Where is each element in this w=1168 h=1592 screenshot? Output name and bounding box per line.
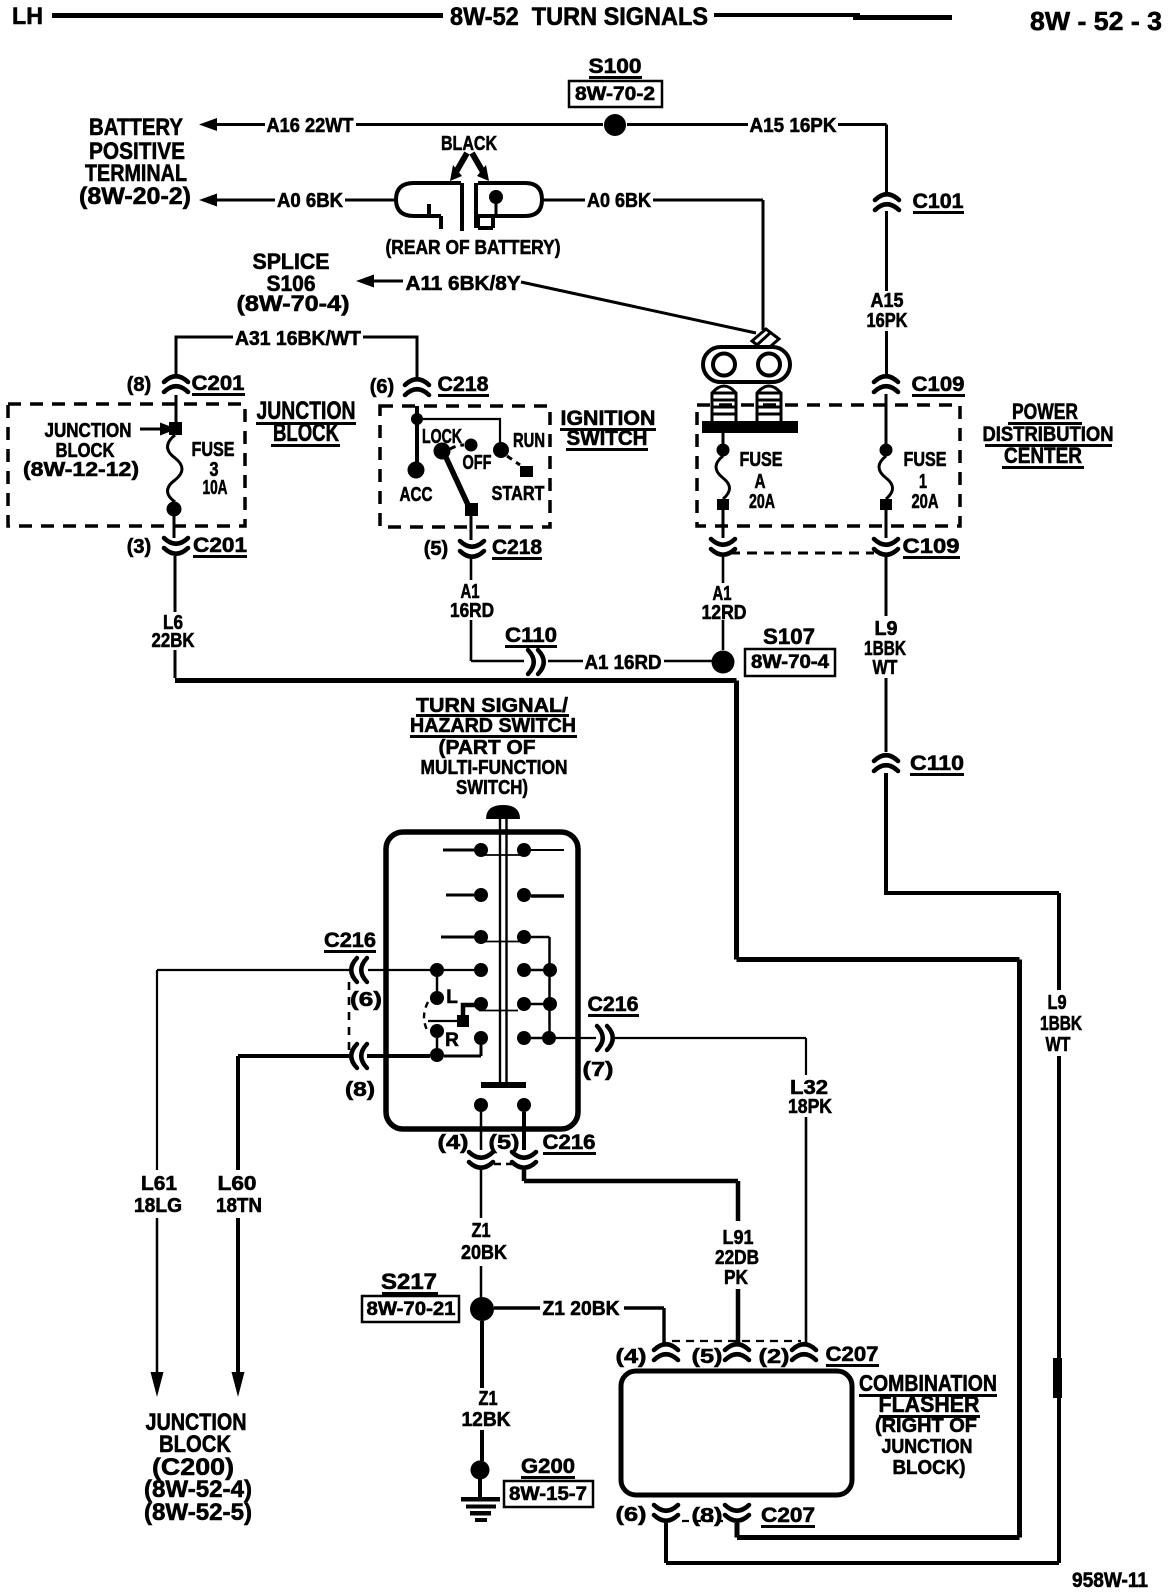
wire A15 16PK vertical <box>885 211 888 374</box>
connector C101 symbol <box>875 194 899 210</box>
svg-text:Z1: Z1 <box>479 1388 498 1410</box>
connector C216 symbol (right-pointing) <box>597 1026 613 1050</box>
wire L6 22BK upper <box>174 556 177 612</box>
START contact <box>520 466 533 477</box>
svg-text:(8): (8) <box>127 374 151 396</box>
svg-text:C218: C218 <box>438 373 489 396</box>
svg-text:S107: S107 <box>763 624 815 649</box>
svg-text:A0 6BK: A0 6BK <box>277 190 344 212</box>
svg-text:(3): (3) <box>127 536 151 558</box>
svg-text:20A: 20A <box>912 491 939 513</box>
svg-text:18TN: 18TN <box>216 1195 262 1217</box>
svg-text:C109: C109 <box>912 373 965 396</box>
battery clamp body <box>703 347 790 382</box>
L9 wire heavy segment <box>1053 1358 1062 1398</box>
switch lever stem <box>500 819 507 1082</box>
svg-text:L: L <box>446 987 458 1008</box>
svg-text:8W-70-21: 8W-70-21 <box>367 1299 456 1320</box>
turn signal switch body <box>386 832 578 1129</box>
svg-text:HAZARD SWITCH: HAZARD SWITCH <box>410 715 576 737</box>
wire L9 1BBK WT run <box>884 773 1059 990</box>
wire A1 16RD vertical <box>470 558 473 580</box>
svg-text:C201: C201 <box>192 372 245 395</box>
arrowhead to battery positive terminal (A16) <box>199 118 217 131</box>
svg-text:Z1 20BK: Z1 20BK <box>543 1298 621 1320</box>
L contact <box>430 991 444 1005</box>
svg-text:R: R <box>445 1030 459 1051</box>
fuse A leg <box>722 433 725 444</box>
wire to L contact <box>436 977 439 991</box>
svg-text:20BK: 20BK <box>461 1242 507 1264</box>
S100 reference box 8W-70-2 <box>569 81 662 107</box>
OFF contact <box>465 439 478 452</box>
svg-text:START: START <box>492 483 545 505</box>
svg-text:A15: A15 <box>871 290 904 312</box>
clamp eye right <box>758 354 780 376</box>
svg-text:C216: C216 <box>543 1131 596 1154</box>
wire A11 diagonal to battery clamp <box>521 282 756 333</box>
bottom pins <box>474 1098 488 1112</box>
power distribution center dashed box <box>697 405 960 526</box>
R contact <box>430 1024 444 1038</box>
svg-text:C207: C207 <box>761 1504 815 1527</box>
svg-text:(5): (5) <box>424 538 448 560</box>
svg-text:JUNCTION: JUNCTION <box>882 1436 973 1458</box>
svg-text:(6): (6) <box>370 376 394 398</box>
contact row 6 <box>474 1031 488 1045</box>
wire Z1 20BK to flasher ground pin <box>494 1306 540 1309</box>
svg-text:C110: C110 <box>505 624 557 647</box>
svg-text:10A: 10A <box>203 477 228 499</box>
connector C109 (top) symbol <box>874 376 898 392</box>
contact row 4 with hazard feed <box>368 969 474 971</box>
svg-text:SWITCH): SWITCH) <box>456 777 528 799</box>
splice S107 node <box>712 651 735 674</box>
svg-text:L61: L61 <box>141 1173 177 1195</box>
connector C110 symbol (right-pointing) <box>528 650 544 674</box>
svg-text:(8W-52-5): (8W-52-5) <box>144 1499 252 1526</box>
svg-text:22DB: 22DB <box>715 1247 759 1269</box>
svg-text:PK: PK <box>724 1267 748 1289</box>
wire A16 22WT / A15 16PK <box>217 125 887 193</box>
svg-text:LH: LH <box>12 3 43 30</box>
fuse 3 top terminal <box>169 422 182 435</box>
svg-text:JUNCTION: JUNCTION <box>45 420 132 442</box>
svg-text:FLASHER: FLASHER <box>879 1391 980 1417</box>
svg-text:958W-11: 958W-11 <box>1072 1569 1148 1592</box>
fuse 3 bottom terminal dot <box>167 502 182 517</box>
svg-text:16PK: 16PK <box>867 310 908 332</box>
ground symbol <box>461 1497 500 1502</box>
thick wire row (8) inside body <box>367 1054 430 1058</box>
svg-text:FUSE: FUSE <box>740 449 783 471</box>
splice S100 node <box>604 114 626 136</box>
svg-text:CENTER: CENTER <box>1004 443 1082 468</box>
svg-text:S217: S217 <box>381 1269 437 1294</box>
RUN contact <box>493 442 509 458</box>
svg-text:A1 16RD: A1 16RD <box>585 652 662 674</box>
svg-text:C207: C207 <box>826 1343 879 1366</box>
header rule left <box>52 13 443 18</box>
svg-text:12RD: 12RD <box>702 602 747 624</box>
wire A0 6BK left <box>217 200 763 330</box>
wire A1 12RD above S107 <box>722 557 725 650</box>
fuse 3 element <box>168 435 183 502</box>
svg-text:(6): (6) <box>616 1504 647 1526</box>
svg-text:(REAR OF BATTERY): (REAR OF BATTERY) <box>386 237 561 259</box>
svg-text:18LG: 18LG <box>134 1195 182 1217</box>
svg-text:(4): (4) <box>438 1132 469 1154</box>
svg-text:A: A <box>755 471 766 493</box>
splice S217 node <box>470 1297 494 1321</box>
lever base bar <box>481 1082 526 1088</box>
wire L6 22BK run to flasher pin 8 <box>174 650 177 678</box>
svg-text:TURN SIGNAL/: TURN SIGNAL/ <box>416 695 568 717</box>
LOCK contact <box>434 443 451 460</box>
svg-text:20A: 20A <box>749 491 775 513</box>
terminal coil left <box>712 386 736 421</box>
svg-text:BLOCK: BLOCK <box>273 419 339 447</box>
G200 reference box 8W-15-7 <box>504 1481 593 1507</box>
connector C218 (top) symbol <box>405 379 429 395</box>
connector C218 (bottom) symbol <box>460 541 484 557</box>
wire into fuse 3 <box>175 395 178 424</box>
svg-text:L9: L9 <box>875 618 898 640</box>
wire A1 16RD horizontal <box>548 660 712 663</box>
header rule right <box>714 13 860 17</box>
svg-text:C109: C109 <box>903 535 960 558</box>
C109 connector dashed joint <box>730 552 874 555</box>
connector C201 (top) symbol <box>164 376 188 392</box>
wire Z1 20BK upper <box>480 1170 483 1218</box>
svg-text:(8W-70-4): (8W-70-4) <box>237 291 350 316</box>
svg-text:(2): (2) <box>759 1346 790 1368</box>
connector C109 (bottom) symbols <box>711 539 735 555</box>
battery rear connector symbol <box>396 183 542 231</box>
wire to RUN contact <box>417 419 500 443</box>
ground G200 node <box>471 1461 490 1480</box>
svg-text:(5): (5) <box>692 1346 723 1368</box>
svg-text:FUSE: FUSE <box>192 439 235 461</box>
wire fuse3 to C201 <box>173 516 176 538</box>
contact row 1 <box>443 849 474 852</box>
wire L32 from row 6 <box>556 1038 806 1075</box>
connector C216 left symbols (left-pointing) <box>351 958 367 982</box>
arrows from BLACK down to battery connector <box>456 153 483 172</box>
svg-text:C101: C101 <box>913 190 964 213</box>
svg-text:C216: C216 <box>324 929 376 952</box>
svg-text:WT: WT <box>873 657 898 679</box>
svg-text:8W-70-2: 8W-70-2 <box>575 84 655 105</box>
battery connector stud dot <box>489 190 503 204</box>
svg-text:(8): (8) <box>345 1079 375 1101</box>
battery clamp tilted lug <box>752 329 779 351</box>
wire L61 18LG <box>157 970 349 1170</box>
svg-text:Z1: Z1 <box>472 1220 491 1242</box>
svg-text:8W-70-4: 8W-70-4 <box>751 652 829 673</box>
svg-text:L91: L91 <box>723 1227 754 1249</box>
svg-text:(8): (8) <box>692 1505 723 1527</box>
svg-text:MULTI-FUNCTION: MULTI-FUNCTION <box>421 757 568 779</box>
svg-text:12BK: 12BK <box>462 1409 512 1431</box>
S217 reference box 8W-70-21 <box>362 1296 459 1322</box>
C216 left dashed joint <box>348 982 351 1050</box>
connector C216 (bottom) symbols <box>469 1152 493 1168</box>
wiper travel dashed arc <box>424 1002 428 1032</box>
svg-text:POWER: POWER <box>1012 399 1078 424</box>
svg-text:ACC: ACC <box>400 484 433 506</box>
wire L60 18TN <box>238 1056 351 1170</box>
arrowhead to splice S106 <box>356 275 374 288</box>
svg-text:1: 1 <box>919 471 927 493</box>
svg-text:A16 22WT: A16 22WT <box>267 115 354 137</box>
hazard feed dot row <box>436 1038 439 1049</box>
svg-text:(4): (4) <box>616 1346 647 1368</box>
dashes LOCK-OFF <box>450 445 464 449</box>
svg-text:C216: C216 <box>588 993 639 1016</box>
svg-text:(8W-20-2): (8W-20-2) <box>79 183 191 210</box>
svg-text:BATTERY: BATTERY <box>89 114 183 141</box>
svg-text:1BBK: 1BBK <box>1040 1013 1082 1035</box>
svg-text:FUSE: FUSE <box>904 449 947 471</box>
svg-text:(6): (6) <box>350 989 382 1011</box>
terminal bar <box>702 421 798 433</box>
svg-text:RUN: RUN <box>513 430 545 452</box>
dashes RUN-START <box>507 456 520 465</box>
junction block dashed box <box>8 404 245 526</box>
svg-text:G200: G200 <box>521 1455 575 1478</box>
svg-text:A11 6BK/8Y: A11 6BK/8Y <box>406 273 522 295</box>
svg-text:S100: S100 <box>589 55 642 78</box>
wire wiper to C218 <box>470 516 473 540</box>
svg-text:WT: WT <box>1046 1034 1071 1056</box>
svg-text:SWITCH: SWITCH <box>567 427 648 450</box>
svg-text:8W-52 TURN SIGNALS: 8W-52 TURN SIGNALS <box>450 3 708 31</box>
contact row 3 <box>441 936 474 939</box>
C207 top dashed joint <box>672 1340 801 1342</box>
terminal coil right <box>757 386 781 421</box>
svg-text:8W-15-7: 8W-15-7 <box>509 1484 587 1505</box>
wire L91 22DB PK <box>524 1170 738 1221</box>
connector C201 (bottom) symbol <box>164 538 188 554</box>
svg-text:BLOCK): BLOCK) <box>893 1457 966 1479</box>
svg-text:A15 16PK: A15 16PK <box>750 115 838 137</box>
svg-text:C110: C110 <box>910 752 964 775</box>
contact row 5 <box>474 997 488 1011</box>
svg-text:C201: C201 <box>193 534 247 557</box>
S107 reference box 8W-70-4 <box>745 649 835 676</box>
svg-text:16RD: 16RD <box>450 600 494 622</box>
C207 bottom dashed joint <box>682 1520 723 1522</box>
wire L9 1BBK WT upper <box>885 556 888 616</box>
svg-text:A31 16BK/WT: A31 16BK/WT <box>235 328 361 350</box>
connector C207 (top) symbols <box>654 1344 678 1360</box>
svg-text:18PK: 18PK <box>788 1096 832 1118</box>
fuse 1 leg <box>885 394 888 444</box>
svg-text:L60: L60 <box>218 1173 257 1195</box>
ACC contact <box>408 462 425 479</box>
clamp eye left <box>713 354 735 376</box>
svg-text:(7): (7) <box>583 1059 614 1081</box>
connector C207 (bottom) symbols <box>654 1505 678 1521</box>
turn signal wiper <box>463 1005 487 1021</box>
arrow to fuse 3 wire <box>140 428 160 431</box>
svg-text:(RIGHT OF: (RIGHT OF <box>875 1415 977 1437</box>
svg-text:L9: L9 <box>1048 992 1067 1014</box>
switch lever knob <box>486 805 520 819</box>
connector C110 symbol (right) <box>874 755 898 771</box>
svg-text:(PART OF: (PART OF <box>439 737 536 759</box>
wire Z1 12BK <box>480 1321 484 1388</box>
ignition switch dashed box <box>380 406 550 527</box>
wire A31 16BK/WT <box>176 337 417 378</box>
svg-text:8W - 52 - 3: 8W - 52 - 3 <box>1030 6 1162 36</box>
svg-text:(8W-12-12): (8W-12-12) <box>23 459 139 481</box>
svg-text:C218: C218 <box>492 536 542 559</box>
contact row 2 <box>446 894 474 897</box>
svg-text:BLACK: BLACK <box>441 133 497 155</box>
svg-text:22BK: 22BK <box>152 630 195 652</box>
ignition switch feed node <box>415 406 419 465</box>
svg-text:A0 6BK: A0 6BK <box>587 190 651 212</box>
svg-text:OFF: OFF <box>463 452 492 474</box>
arrowhead to battery positive terminal (A0) <box>199 194 217 207</box>
ignition wiper <box>444 453 469 507</box>
combination flasher body <box>621 1371 852 1495</box>
